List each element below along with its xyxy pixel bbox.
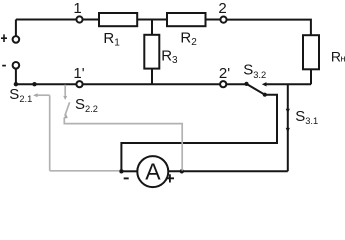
switch S3.2 pivot dot <box>244 82 248 86</box>
ammeter A1 <box>137 156 168 187</box>
svg-text:S2.1: S2.1 <box>9 86 32 104</box>
switch S3.2 upper contact arrow <box>262 82 267 86</box>
switch S3.2 blade end dot <box>263 93 267 97</box>
wire horizontal to switch S3.2 upper contact <box>266 83 311 85</box>
node 1 <box>76 16 82 22</box>
svg-text:2': 2' <box>219 65 230 82</box>
switch S2.2 blade <box>65 102 70 116</box>
wire ammeter minus side <box>121 170 136 172</box>
junction dot minus rail <box>14 82 18 86</box>
svg-text:2: 2 <box>218 0 226 17</box>
gray wire S2.1 vertical <box>49 95 51 171</box>
terminal plus <box>13 36 20 43</box>
svg-text:A: A <box>145 159 161 185</box>
svg-text:S2.2: S2.2 <box>75 96 98 114</box>
gray wire S2.2 from lower rail down <box>64 85 66 96</box>
switch S3.1 lower arrow <box>286 128 290 132</box>
resistor R2 <box>167 13 206 26</box>
junction dot ammeter minus <box>119 169 123 173</box>
wire from plus terminal up to top rail <box>15 20 17 36</box>
gray wire S2.1 horizontal <box>37 94 50 96</box>
junction dot ammeter plus <box>180 169 184 173</box>
switch S3.2 blade <box>247 84 265 95</box>
ammeter plus sign <box>166 174 174 182</box>
svg-text:R3: R3 <box>161 47 178 65</box>
wire junction down to R3 <box>151 20 153 35</box>
wire top rail left to node 1 <box>16 19 77 21</box>
svg-text:R1: R1 <box>103 30 120 48</box>
gray arrow S2.2 top contact <box>63 96 67 100</box>
svg-text:S3.2: S3.2 <box>243 61 266 80</box>
wire ammeter plus side to S3.1 <box>168 170 288 172</box>
wire ammeter bypass loop to S3.2 blade <box>121 95 277 172</box>
gray arrow S2.2 blade end <box>63 114 68 118</box>
resistor R1 <box>99 13 137 26</box>
wire node 1 to R1 <box>83 19 99 21</box>
label plus <box>1 34 7 42</box>
label minus <box>2 65 6 67</box>
switch S3.1 upper arrow <box>286 109 290 114</box>
wire R1 to R2 <box>137 19 167 21</box>
wire S3.1 vertical <box>287 84 289 171</box>
svg-text:1': 1' <box>73 65 84 82</box>
terminal minus <box>13 62 20 69</box>
wire lower rail to node 1' <box>16 83 77 85</box>
node 1' <box>76 81 82 87</box>
wire node 2' to S3.2 <box>226 83 246 85</box>
wire node 2 to top right corner down to Rn <box>227 20 311 36</box>
wire minus terminal down <box>15 69 17 84</box>
wire node 1' to node 2' <box>83 83 221 85</box>
gray arrow S2.1 <box>33 93 38 97</box>
gray wire S2.1 bottom to ammeter <box>50 170 120 172</box>
svg-text:R2: R2 <box>180 30 197 48</box>
node 2 <box>220 17 226 23</box>
svg-text:Rн: Rн <box>331 48 345 64</box>
wire R3 bottom to lower rail <box>151 69 153 84</box>
svg-text:1: 1 <box>73 0 81 17</box>
gray wire S2.2 below blade <box>64 118 182 171</box>
resistor R3 <box>144 35 159 69</box>
wire Rn bottom down <box>310 69 312 84</box>
wire R2 to node 2 <box>206 19 221 21</box>
node 2' <box>220 81 226 87</box>
junction dot lower rail <box>32 82 36 86</box>
svg-text:S3.1: S3.1 <box>295 108 318 126</box>
ammeter minus sign <box>124 177 129 179</box>
resistor Rn <box>303 35 319 69</box>
